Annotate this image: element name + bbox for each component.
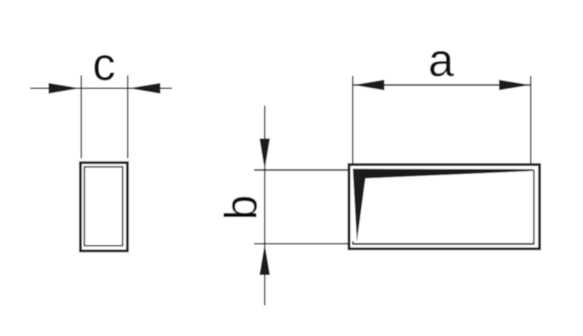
svg-text:a: a bbox=[428, 34, 454, 86]
svg-text:b: b bbox=[216, 195, 267, 220]
svg-text:c: c bbox=[93, 38, 116, 90]
